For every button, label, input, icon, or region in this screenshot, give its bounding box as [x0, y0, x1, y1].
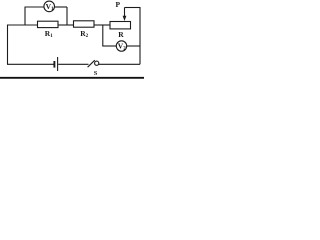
wire: V1 top right	[55, 6, 68, 8]
wire: battery to switch	[58, 63, 88, 65]
resistor R1	[38, 21, 59, 27]
wire: R2 to rheostat	[94, 24, 110, 26]
resistor R2	[74, 21, 95, 27]
switch S lever	[88, 60, 95, 67]
battery negative plate (short thick)	[53, 61, 55, 68]
wire: V1 top left	[25, 6, 44, 8]
wire: V1 branch right vertical (node B)	[66, 7, 68, 25]
wire: left vertical	[7, 25, 9, 65]
wire: switch to bottom right	[99, 63, 140, 65]
wire: bottom left to battery	[7, 63, 54, 65]
voltmeter V2	[116, 41, 126, 51]
wire: wiper to top right	[125, 7, 141, 9]
svg-text:S: S	[94, 70, 98, 77]
voltmeter V1	[44, 1, 55, 12]
svg-text:P: P	[116, 0, 121, 9]
label V1	[45, 0, 126, 77]
wire: main row left to R1	[7, 24, 38, 26]
wire: V2 branch right horizontal	[127, 45, 140, 47]
wire: V1 branch left vertical (node A)	[24, 7, 26, 25]
wire: V2 branch left horizontal	[102, 45, 116, 47]
wire: V2 branch vertical from main row	[102, 25, 104, 46]
svg-text:R: R	[118, 30, 124, 39]
wire: between R1 and R2	[58, 24, 74, 26]
wiper arrowhead	[123, 16, 127, 21]
switch S contact circle	[95, 61, 99, 65]
wiper arrow P onto rheostat	[124, 8, 126, 17]
wire: right vertical	[139, 7, 141, 64]
rheostat R body	[110, 22, 131, 29]
battery positive plate (long thin)	[57, 57, 59, 71]
